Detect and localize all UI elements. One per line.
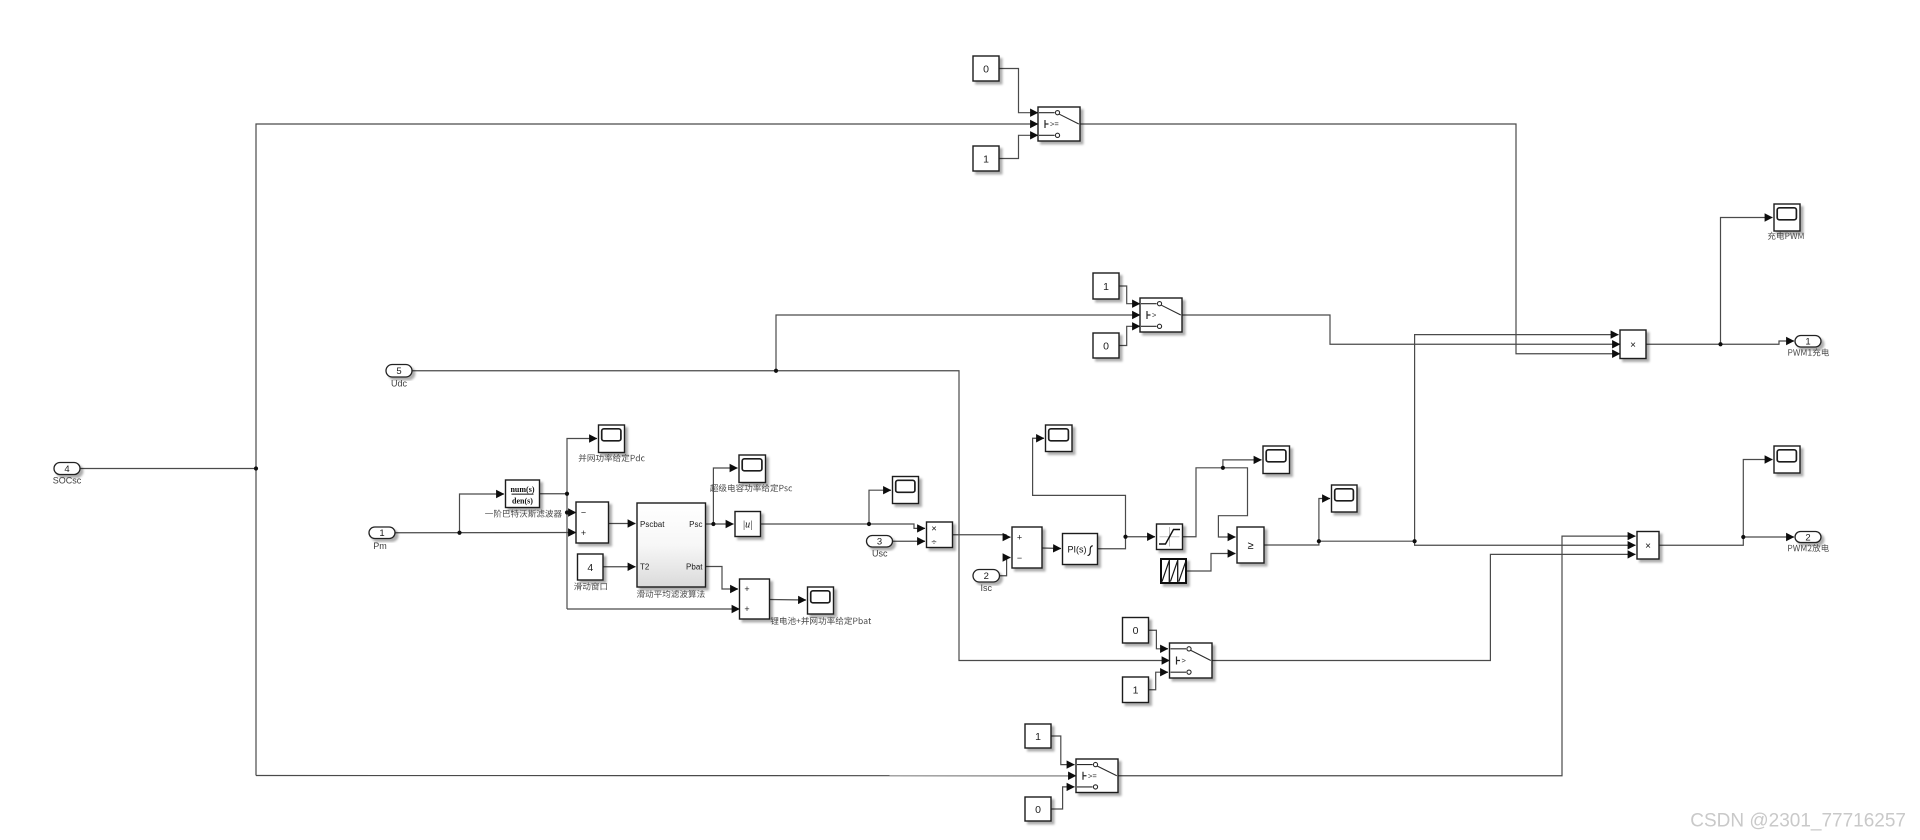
inport 4 SOCsc <box>54 463 80 475</box>
svg-text:den(s): den(s) <box>512 496 533 505</box>
junction TF out <box>565 492 569 496</box>
wire Psc branch to Scope Psc <box>713 468 737 524</box>
wire Pdc trunk to Sum1 minus <box>567 512 576 514</box>
wire Switch3 out to Product2 in3 <box>1212 554 1636 660</box>
wire Pdc trunk to Sum2 in2 <box>567 608 740 610</box>
constant 1 (Switch1 bottom) <box>973 146 999 171</box>
wire Pdc trunk up to Scope Pdc <box>567 439 597 610</box>
wire Divide out to Sum3 plus <box>953 535 1011 537</box>
divide block <box>927 522 953 548</box>
svg-text:SOCsc: SOCsc <box>53 476 82 486</box>
product block Product2 (x) <box>1637 532 1659 560</box>
svg-text:>=: >= <box>1050 120 1059 129</box>
svg-text:Pm: Pm <box>373 541 387 551</box>
svg-text:1: 1 <box>379 528 384 539</box>
svg-text:+: + <box>1017 532 1022 542</box>
wire Abs out to Divide x input <box>761 524 926 528</box>
svg-text:PI(s): PI(s) <box>1068 544 1087 554</box>
wire Sum2 out to Scope Pbat <box>770 599 807 602</box>
svg-text:−: − <box>1017 553 1022 563</box>
svg-text:>=: >= <box>1088 771 1097 780</box>
abs block |u| <box>735 512 761 537</box>
sum block Sum3 (+,-) <box>1012 527 1042 568</box>
junction Product2 out <box>1741 535 1745 539</box>
wire Product1 out to PWM1 port <box>1646 341 1794 344</box>
transfer function block num(s)/den(s) <box>506 480 540 508</box>
constant 4 sliding window <box>578 554 604 580</box>
wire SOCsc to trunk junction <box>80 468 256 470</box>
subsystem moving-average filter <box>637 503 706 587</box>
junction GEQ scope branch <box>1317 539 1321 543</box>
junction Psc out <box>711 522 715 526</box>
label moving average filter algorithm <box>637 590 705 598</box>
wire Switch1 out to Product1 in3 <box>1080 124 1620 354</box>
scope Pbat <box>808 587 834 614</box>
wire Usc to Divide div input <box>893 540 926 542</box>
switch SW3 > <box>1170 643 1213 678</box>
wire Saturation out to GEQ in1 <box>1183 468 1248 537</box>
svg-text:Usc: Usc <box>872 549 888 559</box>
wire bottom run to Switch4 in2 <box>256 775 1076 777</box>
constant 0 (Switch4 bottom) <box>1025 797 1051 821</box>
wire Const0a to Switch1 in1 <box>999 69 1038 113</box>
junction PI out <box>1123 535 1127 539</box>
svg-text:1: 1 <box>983 153 989 165</box>
wire Pm to Sum1 plus <box>395 532 576 534</box>
label grid power reference Pdc <box>579 454 645 462</box>
wire Switch4 out to Product2 in1 <box>1118 536 1636 776</box>
svg-text:2: 2 <box>1805 532 1810 543</box>
svg-text:>: > <box>1182 656 1187 665</box>
svg-text:>: > <box>1152 311 1157 320</box>
scope PWM2 <box>1774 446 1800 473</box>
svg-text:CSDN @2301_77716257: CSDN @2301_77716257 <box>1690 811 1906 832</box>
svg-text:×: × <box>1630 340 1636 351</box>
scope after Abs <box>893 477 919 504</box>
saturation block <box>1157 524 1183 550</box>
wire Psc out to Abs <box>706 523 734 525</box>
scope after saturation <box>1263 446 1290 474</box>
svg-text:T2: T2 <box>640 563 650 572</box>
junction SOCsc/trunk <box>254 466 258 470</box>
relational operator >= block <box>1237 527 1264 563</box>
constant 0 (Switch3 top) <box>1123 618 1149 644</box>
wire Const0b to Switch2 in3 <box>1119 326 1140 345</box>
wire Sum1 out to Pscbat <box>609 523 636 525</box>
label sliding window <box>574 582 607 590</box>
wire GEQ branch to Scope6 <box>1319 499 1330 542</box>
svg-text:0: 0 <box>1103 340 1109 352</box>
svg-text:1: 1 <box>1805 337 1810 348</box>
switch SW1 >= <box>1038 107 1080 141</box>
switch SW4 >= <box>1076 759 1118 793</box>
label first-order Butterworth filter <box>485 510 562 518</box>
svg-text:Pscbat: Pscbat <box>640 520 665 529</box>
wire Udc to Switch3 in2 <box>412 371 1170 661</box>
svg-text:×: × <box>1645 541 1651 552</box>
wire trunk vertical + top run to Switch1 in2 <box>256 124 1038 776</box>
constant 0 (Switch1 top) <box>973 56 999 81</box>
wire Saturation branch to Scope5 <box>1223 460 1262 468</box>
constant 1 (Switch3 bottom) <box>1123 677 1149 703</box>
svg-text:Isc: Isc <box>981 583 993 593</box>
label PWM2 discharge <box>1788 544 1829 552</box>
svg-text:Pbat: Pbat <box>686 563 703 572</box>
outport 1 PWM1 <box>1795 336 1821 348</box>
constant 1 (Switch2 top) <box>1093 273 1119 299</box>
constant 1 (Switch4 top) <box>1025 724 1051 748</box>
wire Isc to Sum3 minus <box>1000 558 1011 576</box>
switch SW2 > <box>1140 298 1182 332</box>
svg-text:×: × <box>931 524 937 535</box>
wire Switch2 out to Product1 in2 <box>1182 315 1620 344</box>
scope Pdc <box>599 425 625 453</box>
svg-text:4: 4 <box>64 464 69 475</box>
svg-text:−: − <box>581 507 586 517</box>
wire Const4 to T2 <box>603 566 636 568</box>
constant 0 (Switch2 bottom) <box>1093 333 1119 358</box>
svg-text:1: 1 <box>1035 731 1041 743</box>
label battery+grid power reference Pbat <box>771 617 872 625</box>
junction Abs out <box>867 522 871 526</box>
wire Const1a to Switch1 in3 <box>999 135 1038 158</box>
label supercap power reference Psc <box>710 484 792 492</box>
svg-text:4: 4 <box>587 562 593 574</box>
wire PI branch to Scope4 <box>1033 438 1126 537</box>
wire Pm branch to TF in <box>460 494 505 533</box>
svg-text:Psc: Psc <box>689 520 702 529</box>
junction GEQ product branch <box>1413 539 1417 543</box>
svg-text:3: 3 <box>877 537 882 548</box>
svg-text:1: 1 <box>1103 281 1109 293</box>
wire Sum3 out to PI <box>1042 547 1061 550</box>
svg-text:÷: ÷ <box>931 537 936 548</box>
svg-text:0: 0 <box>1035 804 1041 816</box>
PI controller block PI(s) <box>1063 534 1098 565</box>
wire TF out <box>540 493 568 495</box>
svg-text:+: + <box>744 604 749 614</box>
label charge PWM <box>1768 232 1804 240</box>
label PWM1 charge <box>1788 348 1829 356</box>
svg-text:5: 5 <box>396 366 401 377</box>
inport 2 Isc <box>973 570 1000 583</box>
junction Sum1 minus tap <box>565 510 569 514</box>
outport 2 PWM2 <box>1795 532 1821 544</box>
wire Udc branch to Switch2 in2 <box>776 315 1140 371</box>
wire Const1b to Switch2 in1 <box>1119 286 1140 304</box>
junction Udc branch <box>774 369 778 373</box>
scope after GEQ <box>1332 485 1358 512</box>
svg-text:num(s): num(s) <box>510 485 534 494</box>
svg-text:1: 1 <box>1133 685 1139 697</box>
wire branch to Scope PWM2 <box>1743 460 1772 538</box>
scope PI loop <box>1046 425 1073 452</box>
repeating sequence (sawtooth) block <box>1161 559 1186 583</box>
junction Saturation out <box>1221 466 1225 470</box>
wire Const1c to Switch3 in3 <box>1149 672 1169 690</box>
product block Product1 (x) <box>1620 330 1646 359</box>
junction Product1 out <box>1718 342 1722 346</box>
wire Abs branch to Scope3 <box>869 490 891 524</box>
wire GEQ branch to Product1 in1 <box>1415 335 1619 542</box>
svg-text:+: + <box>581 528 586 538</box>
scope charge PWM <box>1774 204 1800 231</box>
wire Pbat out to Sum2 in1 <box>706 567 739 590</box>
wire Product2 out to PWM2 port <box>1659 537 1794 545</box>
svg-text:+: + <box>744 584 749 594</box>
wire Const0c to Switch3 in1 <box>1149 630 1169 649</box>
sum block Sum1 (-,+) <box>576 502 609 543</box>
svg-text:0: 0 <box>1133 625 1139 637</box>
svg-text:|u|: |u| <box>742 520 753 531</box>
svg-text:0: 0 <box>983 63 989 75</box>
svg-text:≥: ≥ <box>1247 540 1253 552</box>
wire GEQ out to Product2 in2 <box>1264 541 1636 545</box>
wire Const0d to Switch4 in3 <box>1051 787 1075 809</box>
scope Psc <box>739 455 766 483</box>
inport 3 Usc <box>867 536 893 548</box>
junction Pm branch <box>457 531 461 535</box>
inport 1 Pm <box>369 527 395 539</box>
inport 5 Udc <box>386 365 412 378</box>
sum block Sum2 (+,+) <box>740 579 770 619</box>
svg-text:2: 2 <box>984 571 989 582</box>
wire Const1d to Switch4 in1 <box>1051 736 1075 765</box>
wire branch to Scope chgPWM <box>1721 218 1773 345</box>
svg-text:Udc: Udc <box>391 379 408 389</box>
wire PI out to Saturation <box>1098 537 1156 549</box>
wire Sawtooth out to GEQ in2 <box>1186 554 1236 572</box>
